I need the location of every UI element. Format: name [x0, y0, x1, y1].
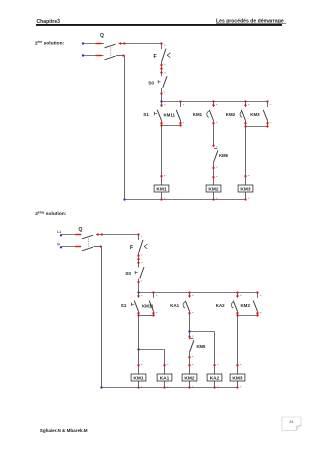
svg-text:KA2: KA2	[216, 303, 225, 308]
svg-text:KM3: KM3	[232, 375, 242, 381]
svg-text:34: 34	[289, 419, 294, 424]
svg-text:S0: S0	[125, 271, 131, 276]
svg-text:KM2: KM2	[184, 375, 194, 381]
svg-text:KA1: KA1	[160, 375, 170, 381]
svg-text:F: F	[154, 54, 157, 60]
svg-text:KM5: KM5	[197, 344, 207, 349]
svg-text:KA2: KA2	[210, 375, 220, 381]
svg-text:S1: S1	[121, 303, 127, 308]
svg-text:KM3: KM3	[240, 186, 250, 192]
svg-text:F: F	[130, 245, 133, 251]
svg-text:KM3: KM3	[250, 112, 260, 117]
svg-text:KM11: KM11	[164, 113, 176, 118]
svg-text:S1: S1	[143, 112, 149, 117]
svg-text:Sghaier.N & Mbarek.M: Sghaier.N & Mbarek.M	[40, 428, 88, 433]
svg-text:L1: L1	[57, 230, 61, 234]
svg-text:S0: S0	[148, 81, 154, 86]
svg-text:KM5: KM5	[219, 153, 229, 158]
svg-text:KM2: KM2	[226, 112, 236, 117]
svg-text:KM1: KM1	[133, 375, 143, 381]
svg-text:KM1: KM1	[193, 112, 203, 117]
svg-text:Chapitre3: Chapitre3	[37, 19, 61, 25]
svg-text:KA1: KA1	[170, 303, 179, 308]
svg-text:KM3: KM3	[241, 303, 251, 308]
svg-text:KM1: KM1	[156, 186, 166, 192]
svg-text:Q: Q	[79, 227, 83, 233]
svg-text:Q: Q	[100, 33, 104, 39]
svg-text:KM2: KM2	[208, 186, 218, 192]
